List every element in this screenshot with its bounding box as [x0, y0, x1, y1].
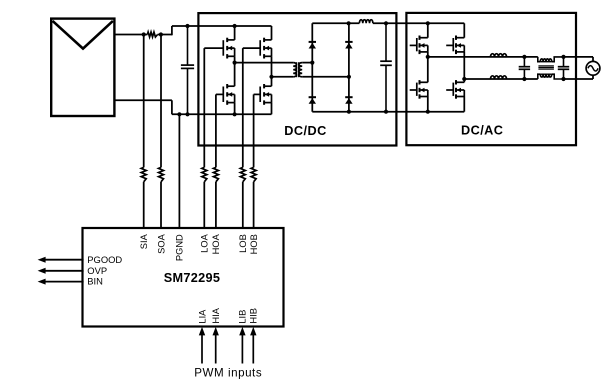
- svg-text:BIN: BIN: [87, 276, 103, 287]
- svg-text:LIA: LIA: [197, 309, 207, 324]
- svg-text:PWM inputs: PWM inputs: [194, 367, 262, 380]
- svg-text:LOB: LOB: [238, 234, 248, 253]
- svg-text:HIB: HIB: [249, 308, 259, 324]
- svg-text:LOA: LOA: [200, 233, 210, 252]
- svg-text:DC/DC: DC/DC: [284, 124, 326, 138]
- svg-text:PGND: PGND: [175, 234, 185, 261]
- svg-text:HOA: HOA: [211, 233, 221, 254]
- svg-text:SOA: SOA: [156, 233, 166, 253]
- svg-text:LIB: LIB: [238, 310, 248, 324]
- svg-text:SM72295: SM72295: [164, 271, 221, 285]
- svg-text:PGOOD: PGOOD: [87, 254, 122, 265]
- svg-text:HIA: HIA: [211, 307, 221, 323]
- svg-text:DC/AC: DC/AC: [461, 124, 503, 138]
- svg-text:SIA: SIA: [139, 233, 149, 249]
- svg-text:OVP: OVP: [87, 265, 107, 276]
- svg-text:HOB: HOB: [249, 234, 259, 254]
